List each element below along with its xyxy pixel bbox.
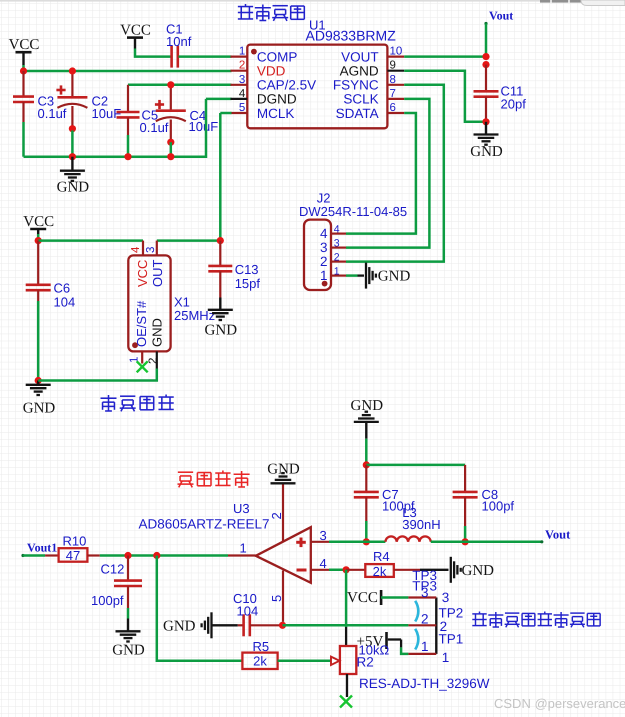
pin U3-3 stub bbox=[311, 528, 329, 543]
svg-text:4: 4 bbox=[320, 556, 327, 571]
svg-text:4: 4 bbox=[239, 88, 246, 100]
svg-text:5: 5 bbox=[269, 595, 284, 602]
wire C4 to ground rail bbox=[170, 142, 173, 157]
wire ground rail bbox=[24, 99, 207, 157]
wire L3 to Vout bbox=[431, 541, 542, 544]
ground GND (op-amp pin2, inverted) bbox=[267, 462, 300, 484]
wire R5 to wiper arrow bbox=[278, 660, 331, 663]
svg-text:15pf: 15pf bbox=[235, 276, 261, 291]
ground GND (crystal bottom-left) bbox=[23, 381, 56, 417]
wire VCC rail to pin 2 bbox=[24, 70, 232, 73]
svg-text:2: 2 bbox=[421, 612, 429, 627]
svg-text:CAP/2.5V: CAP/2.5V bbox=[257, 78, 316, 93]
wire VCC rail to X1 pin4 bbox=[38, 239, 143, 242]
test point TP3 labels bbox=[412, 568, 437, 594]
svg-text:DGND: DGND bbox=[257, 92, 297, 107]
wire C7/C8 top rail bbox=[366, 464, 465, 467]
svg-text:2: 2 bbox=[269, 512, 284, 519]
ground GND (C12) bbox=[112, 619, 145, 659]
wire GND to C7 rail bbox=[365, 422, 367, 439]
capacitor C5 bbox=[117, 85, 169, 135]
capacitor C7 bbox=[354, 465, 415, 521]
svg-text:Vout: Vout bbox=[545, 528, 571, 542]
svg-text:GND: GND bbox=[470, 144, 503, 160]
node ground rail C2 junction bbox=[69, 153, 76, 160]
wire pin3 to L3 bbox=[329, 541, 385, 544]
pin 5 MCLK bbox=[231, 102, 295, 121]
svg-text:CSDN @perseverance52: CSDN @perseverance52 bbox=[494, 696, 625, 711]
potentiometer R2 RES-ADJ-TH_3296W bbox=[340, 646, 490, 691]
svg-text:VCC: VCC bbox=[23, 214, 54, 230]
pin J2-3 stub bbox=[331, 247, 346, 249]
svg-text:AD9833BRMZ: AD9833BRMZ bbox=[306, 28, 397, 44]
svg-text:U3: U3 bbox=[233, 501, 250, 516]
node Vout junction 2 bbox=[482, 61, 489, 68]
svg-text:SDATA: SDATA bbox=[336, 106, 379, 121]
svg-text:2: 2 bbox=[320, 254, 328, 269]
svg-text:AGND: AGND bbox=[340, 64, 379, 79]
net label Vout (top) bbox=[484, 9, 513, 26]
wire pin10 to Vout node bbox=[404, 55, 486, 58]
node C11 bottom junction bbox=[482, 118, 489, 125]
node feedback junction bbox=[153, 552, 160, 559]
svg-text:1: 1 bbox=[320, 268, 328, 283]
power port VCC (C1) bbox=[120, 23, 151, 49]
pin X1-4 VCC stub bbox=[130, 241, 143, 256]
wire R4 node down to R2 bbox=[345, 570, 348, 627]
svg-text:GND: GND bbox=[378, 269, 411, 285]
ground GND (J2 pin1, sideways) bbox=[366, 263, 410, 289]
power port VCC (top-left) bbox=[9, 37, 40, 65]
svg-text:Vout: Vout bbox=[489, 9, 513, 23]
svg-text:DW254R-11-04-85: DW254R-11-04-85 bbox=[299, 204, 407, 219]
wire +5V to header pin1 bbox=[388, 640, 409, 654]
capacitor C6 bbox=[26, 241, 76, 310]
crystal X1 25MHz body bbox=[128, 255, 215, 351]
wire C5 bottom bbox=[127, 135, 130, 157]
resistor R10 47 bbox=[45, 534, 100, 563]
wire C7 bottom bbox=[365, 521, 368, 542]
svg-text:390nH: 390nH bbox=[402, 517, 440, 532]
wire R2 bottom with no-connect X bbox=[340, 674, 352, 708]
wire VCC stem green bbox=[22, 65, 25, 71]
pin 2 VDD bbox=[231, 60, 286, 79]
svg-text:MCLK: MCLK bbox=[257, 106, 295, 121]
wire FSYNC to J2 pin2 bbox=[346, 85, 444, 262]
wire C2 to ground rail bbox=[71, 131, 74, 157]
wire X1 pin3 to MCLK junction bbox=[157, 239, 221, 242]
top toolbar edge (decorative) bbox=[0, 0, 625, 2]
svg-text:2: 2 bbox=[148, 358, 160, 364]
svg-text:100pf: 100pf bbox=[482, 499, 515, 514]
svg-text:C6: C6 bbox=[54, 281, 71, 296]
feedback wire to R5 bbox=[157, 556, 243, 661]
capacitor C1 bbox=[166, 22, 192, 68]
svg-text:0.1uf: 0.1uf bbox=[38, 106, 67, 121]
capacitor C4 (electrolytic) bbox=[155, 85, 218, 142]
wire C3 bottom bbox=[22, 122, 25, 157]
node C7 bottom junction bbox=[363, 538, 370, 545]
header TP1/TP2/TP3 bracket bbox=[408, 598, 436, 654]
wire pin4 to R4 node bbox=[329, 569, 346, 572]
svg-text:TP2: TP2 bbox=[439, 606, 464, 621]
wire C12 bottom bbox=[127, 608, 130, 619]
wire SCLK to J2 pin3 bbox=[346, 99, 429, 248]
svg-text:GND: GND bbox=[267, 462, 300, 478]
capacitor C13 bbox=[208, 241, 260, 298]
svg-text:GND: GND bbox=[57, 180, 90, 196]
selection arc 1 (cyan) bbox=[415, 601, 418, 622]
wire AGND pin9 to C11 bottom bbox=[404, 71, 486, 122]
node MCLK/C13 junction bbox=[217, 237, 224, 244]
pin J2-1 stub bbox=[331, 275, 346, 277]
node VCC crystal junction bbox=[35, 237, 42, 244]
wiper arrow into R2 bbox=[331, 657, 340, 665]
svg-text:20pf: 20pf bbox=[501, 97, 527, 112]
pin 1 COMP bbox=[231, 46, 298, 65]
svg-text:COMP: COMP bbox=[257, 49, 298, 64]
title 有源晶振 bbox=[101, 395, 174, 412]
svg-text:5: 5 bbox=[239, 102, 245, 114]
svg-text:3: 3 bbox=[239, 74, 245, 86]
svg-text:3: 3 bbox=[320, 528, 327, 543]
header pin numbers inside bbox=[421, 585, 429, 654]
svg-text:2: 2 bbox=[239, 60, 245, 72]
pin 7 SCLK bbox=[343, 88, 404, 107]
svg-text:1: 1 bbox=[239, 46, 245, 58]
pin U3-1 output stub bbox=[228, 541, 256, 556]
node C4 top junction bbox=[167, 81, 174, 88]
svg-text:VDD: VDD bbox=[257, 64, 286, 79]
svg-text:3: 3 bbox=[421, 585, 429, 600]
title 放大电路 bbox=[178, 471, 250, 488]
pin X1-3 OUT stub bbox=[145, 241, 157, 256]
wire SDATA to J2 pin4 bbox=[346, 113, 416, 234]
wire VCC to C1 bbox=[135, 49, 171, 57]
svg-text:47: 47 bbox=[66, 548, 80, 563]
svg-text:10: 10 bbox=[390, 46, 403, 58]
svg-text:10uF: 10uF bbox=[189, 119, 219, 134]
svg-text:C12: C12 bbox=[101, 562, 125, 577]
node Vout junction bbox=[482, 53, 489, 60]
pin U3-4 stub bbox=[311, 556, 329, 571]
title 运放供电电压选择 bbox=[472, 612, 600, 628]
svg-text:TP1: TP1 bbox=[439, 631, 464, 646]
header pin numbers outside bbox=[440, 590, 450, 665]
svg-text:1: 1 bbox=[442, 650, 450, 665]
wire CAP/2.5V rail bbox=[128, 84, 232, 87]
svg-text:GND: GND bbox=[205, 323, 238, 339]
node C12 junction bbox=[124, 552, 131, 559]
pin U3-5 stub bbox=[269, 571, 284, 622]
wire R4 to TP3 ground bbox=[394, 569, 420, 571]
pin 10 VOUT bbox=[341, 46, 404, 65]
svg-text:VCC: VCC bbox=[9, 37, 40, 53]
svg-text:10kΩ: 10kΩ bbox=[359, 643, 390, 658]
svg-text:1: 1 bbox=[421, 639, 429, 654]
pin X1-2 GND stub bbox=[148, 351, 160, 368]
node C2 top junction bbox=[69, 67, 76, 74]
svg-text:SCLK: SCLK bbox=[343, 92, 378, 107]
wire Vout1 to R10 bbox=[23, 554, 45, 557]
svg-text:1: 1 bbox=[240, 541, 247, 556]
svg-text:104: 104 bbox=[54, 295, 76, 310]
svg-text:2k: 2k bbox=[253, 653, 267, 668]
svg-text:9: 9 bbox=[390, 60, 396, 72]
resistor R5 2k bbox=[242, 639, 277, 669]
wire C6 bottom bbox=[37, 301, 40, 381]
node R4 junction bbox=[343, 566, 350, 573]
svg-text:VCC: VCC bbox=[135, 260, 150, 287]
svg-text:VCC: VCC bbox=[347, 590, 378, 606]
svg-text:VOUT: VOUT bbox=[341, 49, 379, 64]
svg-text:GND: GND bbox=[112, 643, 145, 659]
svg-text:Vout1: Vout1 bbox=[27, 541, 57, 555]
pin 3 CAP/2.5V bbox=[231, 74, 317, 93]
pin J2-4 stub bbox=[331, 233, 346, 235]
wire J2 pin1 to ground bbox=[346, 274, 358, 277]
svg-text:R5: R5 bbox=[253, 639, 270, 654]
op-amp U3 AD8605ARTZ-REEL7 bbox=[139, 501, 311, 583]
selection arc 2 (cyan) bbox=[415, 629, 418, 650]
svg-text:8: 8 bbox=[390, 74, 396, 86]
svg-text:C13: C13 bbox=[235, 262, 259, 277]
power port +5V (header pin1) bbox=[357, 632, 387, 650]
wire Vout down bbox=[485, 24, 488, 57]
wire C1 to pin 1 COMP bbox=[179, 55, 232, 58]
svg-text:104: 104 bbox=[237, 604, 259, 619]
wire VCC to header pin3 bbox=[381, 596, 408, 599]
svg-text:VCC: VCC bbox=[120, 23, 151, 39]
svg-text:FSYNC: FSYNC bbox=[333, 78, 379, 93]
svg-text:4: 4 bbox=[320, 226, 328, 241]
svg-text:OUT: OUT bbox=[150, 260, 165, 288]
wire C10 node to header pin2 bbox=[283, 624, 409, 627]
capacitor C11 bbox=[474, 65, 527, 122]
svg-text:4: 4 bbox=[130, 246, 142, 253]
wire pin5 to C10 node bbox=[282, 622, 285, 626]
node C2 mid junction bbox=[69, 125, 76, 132]
svg-text:R10: R10 bbox=[63, 534, 87, 549]
wire ground to X1 pin2 bbox=[38, 369, 157, 381]
svg-text:RES-ADJ-TH_3296W: RES-ADJ-TH_3296W bbox=[359, 676, 490, 691]
net label Vout (right) bbox=[540, 528, 571, 544]
node ground junction (crystal) bbox=[35, 377, 42, 384]
ground GND (C11) bbox=[470, 122, 503, 160]
pin U3-2 stub to GND bbox=[269, 483, 284, 541]
svg-text:GND: GND bbox=[149, 318, 164, 347]
svg-text:7: 7 bbox=[390, 88, 396, 100]
ground GND (top-left rail) bbox=[57, 157, 90, 196]
svg-text:10uF: 10uF bbox=[92, 106, 122, 121]
net label Vout1 bbox=[21, 541, 57, 558]
svg-text:100pf: 100pf bbox=[91, 593, 124, 608]
connector J2 DW254R-11-04-85 bbox=[299, 191, 407, 291]
node ground rail C5 junction bbox=[124, 153, 131, 160]
title 波形发生 bbox=[238, 4, 304, 21]
svg-text:3: 3 bbox=[320, 240, 328, 255]
node C10/pin5 junction bbox=[279, 622, 286, 629]
wire MCLK vertical bbox=[219, 113, 222, 241]
svg-text:GND: GND bbox=[462, 563, 495, 579]
svg-text:GND: GND bbox=[23, 401, 56, 417]
power port VCC (header pin3) bbox=[347, 590, 381, 606]
node C4 mid junction bbox=[167, 139, 174, 146]
ground GND (C13) bbox=[205, 298, 238, 339]
svg-text:OE/ST#: OE/ST# bbox=[134, 300, 149, 347]
ground GND (above C7) bbox=[351, 398, 384, 422]
capacitor C2 (electrolytic) bbox=[56, 71, 121, 127]
svg-text:3: 3 bbox=[145, 247, 157, 253]
svg-text:2k: 2k bbox=[373, 564, 387, 579]
svg-text:AD8605ARTZ-REEL7: AD8605ARTZ-REEL7 bbox=[139, 516, 270, 531]
svg-text:6: 6 bbox=[390, 102, 396, 114]
capacitor C10 104 bbox=[212, 591, 282, 637]
power port VCC (crystal) bbox=[23, 214, 54, 234]
capacitor C3 bbox=[13, 71, 67, 122]
svg-text:GND: GND bbox=[163, 619, 196, 635]
capacitor C12 bbox=[91, 556, 142, 609]
pin 9 AGND bbox=[340, 60, 405, 79]
node C7 top junction bbox=[363, 461, 370, 468]
pin 6 SDATA bbox=[336, 102, 405, 121]
svg-text:R4: R4 bbox=[373, 549, 390, 564]
ground GND (TP3, sideways) bbox=[451, 557, 494, 583]
svg-text:3: 3 bbox=[442, 590, 450, 605]
wire MCLK horizontal bbox=[220, 112, 231, 115]
node C8 bottom junction / L3 right bbox=[462, 538, 469, 545]
node ground rail C4 junction bbox=[167, 153, 174, 160]
wire DGND pin4 bbox=[206, 98, 232, 101]
wire R10 to op-amp pin1 bbox=[100, 554, 228, 557]
pin 8 FSYNC bbox=[333, 74, 404, 93]
node VCC-rail left junction bbox=[20, 67, 27, 74]
svg-text:10nf: 10nf bbox=[166, 34, 192, 49]
pin X1-1 OE/ST# stub with no-connect X bbox=[129, 351, 148, 372]
pin J2-2 stub bbox=[331, 261, 346, 263]
op IC U1 AD9833BRMZ body bbox=[247, 18, 396, 129]
wire VCC to rail bbox=[37, 234, 40, 241]
capacitor C8 bbox=[453, 465, 515, 526]
resistor R4 2k bbox=[346, 549, 394, 579]
svg-text:0.1uf: 0.1uf bbox=[140, 120, 169, 135]
inductor L3 390nH bbox=[385, 505, 440, 542]
pin 4 DGND bbox=[231, 88, 297, 107]
wire C8 bottom bbox=[464, 526, 467, 542]
ground GND (C10, sideways) bbox=[163, 612, 212, 638]
